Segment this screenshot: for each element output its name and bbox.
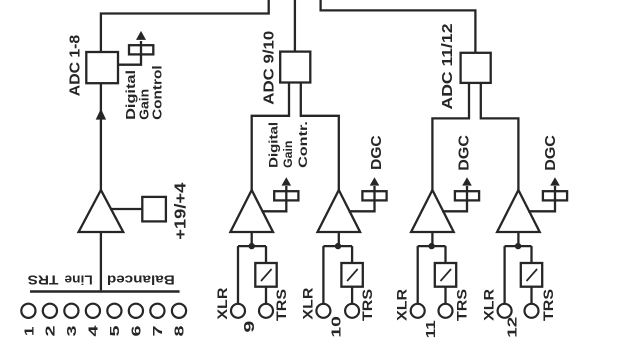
junction bar ch11 (418, 245, 446, 247)
jack socket 4 (86, 304, 100, 318)
junction bar ch9 (238, 245, 266, 247)
svg-text:5: 5 (107, 326, 122, 337)
wire junction to XLR 10 (322, 246, 324, 304)
pad diagonal ch9 (261, 269, 272, 281)
jack socket 5 (107, 304, 121, 318)
wire pad box to TRS 11 (444, 287, 446, 304)
pad diagonal ch12 (527, 269, 538, 281)
svg-text:TRS: TRS (541, 289, 556, 321)
wire junction to XLR 11 (417, 246, 419, 304)
wire amp A1 to +19/+4 box (110, 208, 142, 210)
DGC5 control rectangle (543, 191, 567, 200)
wire amp A4 to DGC4 (442, 186, 467, 211)
wire junction to XLR 9 (237, 246, 239, 304)
junction node ch9 (249, 243, 255, 249)
svg-text:Gain: Gain (138, 89, 152, 120)
svg-text:Control: Control (151, 65, 165, 120)
jack socket 1 (21, 304, 35, 318)
TRS socket 10 (345, 304, 359, 318)
wire ADC 11/12 output to top edge (321, 0, 476, 53)
wire amp A5 input from junction (517, 232, 519, 246)
svg-text:XLR: XLR (300, 287, 315, 319)
TRS socket 11 (439, 304, 453, 318)
wire junction to pad box ch11 (444, 246, 446, 263)
svg-text:2: 2 (42, 326, 57, 337)
svg-text:TRS: TRS (360, 289, 375, 321)
svg-text:DGC: DGC (542, 135, 559, 171)
junction node ch11 (428, 243, 434, 249)
TRS socket 12 (525, 304, 539, 318)
svg-text:ADC 9/10: ADC 9/10 (261, 31, 277, 105)
svg-text:3: 3 (64, 326, 79, 337)
pad box ch10 (341, 263, 362, 287)
svg-text:11: 11 (423, 320, 438, 338)
DGC5 arrowhead (550, 177, 560, 185)
pad diagonal ch10 (347, 269, 358, 281)
op-amp A5 (ch 12) (497, 190, 540, 232)
box +19/+4 reference level (142, 197, 166, 222)
svg-text:TRS: TRS (27, 273, 58, 288)
svg-text:XLR: XLR (394, 289, 409, 321)
pad diagonal ch11 (441, 269, 452, 281)
wire from ADC 1-8 output to top edge (101, 0, 269, 52)
svg-text:Line: Line (64, 273, 92, 288)
svg-text:12: 12 (504, 317, 519, 338)
svg-text:Balanced: Balanced (107, 273, 175, 288)
DGC3 arrowhead (370, 177, 380, 185)
op-amp A3 (ch 10) (318, 190, 361, 232)
op-amp A2 (ch 9) (230, 190, 273, 232)
wire junction to pad box ch10 (351, 246, 353, 263)
wire ADC 9/10 input ch10 (301, 82, 339, 190)
wire pad box to TRS 12 (530, 287, 532, 304)
svg-text:DGC: DGC (368, 135, 385, 170)
svg-text:10: 10 (329, 316, 344, 338)
jack socket 7 (150, 304, 164, 318)
ADC U3 box (ADC 11/12) (461, 53, 491, 83)
svg-text:ADC 11/12: ADC 11/12 (440, 24, 456, 110)
svg-text:Contr.: Contr. (296, 121, 310, 168)
wire amp A1 input from TRS bus (100, 232, 102, 290)
wire amp A3 input from junction (338, 232, 340, 246)
svg-text:+19/+4: +19/+4 (173, 183, 190, 240)
wire ADC 11/12 input ch11 (432, 83, 469, 190)
jack socket 3 (64, 304, 78, 318)
svg-text:6: 6 (128, 326, 143, 337)
svg-text:Digital: Digital (266, 122, 280, 168)
wire amp A3 to DGC3 (349, 186, 375, 211)
svg-text:ADC 1-8: ADC 1-8 (68, 35, 84, 96)
wire ADC 9/10 input ch9 (252, 82, 289, 190)
op-amp A1 (input amp ch 1-8) (79, 190, 124, 232)
bus line (panel edge inputs 1-8) (30, 290, 180, 292)
junction bar ch10 (323, 245, 352, 247)
pad box ch9 (255, 263, 276, 287)
wire amp A1 output to ADC 1-8 input (100, 83, 102, 190)
junction bar ch12 (505, 245, 532, 247)
wire amp A4 input from junction (431, 232, 433, 246)
wire ADC 9/10 output to top edge (294, 0, 296, 52)
wire from ADC 1-8 box to DGC1 symbol (118, 41, 141, 65)
svg-text:1: 1 (22, 327, 37, 337)
svg-text:XLR: XLR (481, 289, 496, 321)
DGC1 arrowhead (136, 31, 146, 40)
svg-text:8: 8 (172, 326, 187, 337)
wire pad box to TRS 9 (265, 287, 267, 304)
XLR socket 9 (231, 304, 245, 318)
jack socket 6 (129, 304, 143, 318)
XLR socket 10 (316, 304, 330, 318)
DGC1 control rectangle (129, 45, 153, 54)
svg-text:7: 7 (150, 326, 165, 337)
jack socket 2 (43, 304, 57, 318)
DGC4 arrowhead (462, 177, 472, 185)
wire junction to pad box ch9 (265, 246, 267, 263)
arrowhead on wire to ADC 1-8 (96, 109, 106, 120)
svg-text:4: 4 (85, 324, 100, 336)
jack socket 8 (172, 304, 186, 318)
svg-text:Digital: Digital (124, 70, 138, 120)
wire junction to pad box ch12 (530, 246, 532, 263)
wire pad box to TRS 10 (351, 287, 353, 304)
svg-text:TRS: TRS (455, 289, 470, 321)
XLR socket 12 (498, 304, 512, 318)
DGC3 control rectangle (362, 191, 386, 200)
wire ADC 11/12 input ch12 (481, 83, 519, 190)
ADC U1 box (ADC 1-8) (86, 52, 118, 83)
svg-text:DGC: DGC (456, 135, 473, 171)
TRS socket 9 (259, 304, 273, 318)
wire amp A2 to DGC2 (262, 186, 287, 211)
DGC2 control rectangle (274, 191, 298, 200)
DGC4 control rectangle (455, 191, 479, 200)
wire amp A5 to DGC5 (528, 186, 555, 211)
svg-text:TRS: TRS (274, 289, 289, 321)
junction node ch10 (335, 243, 341, 249)
op-amp A4 (ch 11) (411, 190, 454, 232)
ADC U2 box (ADC 9/10) (280, 52, 310, 83)
svg-text:XLR: XLR (215, 287, 230, 319)
svg-text:Gain: Gain (281, 141, 295, 168)
pad box ch11 (435, 263, 456, 287)
svg-text:9: 9 (242, 321, 258, 333)
wire amp A2 input from junction (251, 232, 253, 246)
XLR socket 11 (411, 304, 425, 318)
wire junction to XLR 12 (503, 246, 505, 304)
pad box ch12 (521, 263, 542, 287)
junction node ch12 (515, 243, 521, 249)
DGC2 arrowhead (282, 177, 292, 185)
